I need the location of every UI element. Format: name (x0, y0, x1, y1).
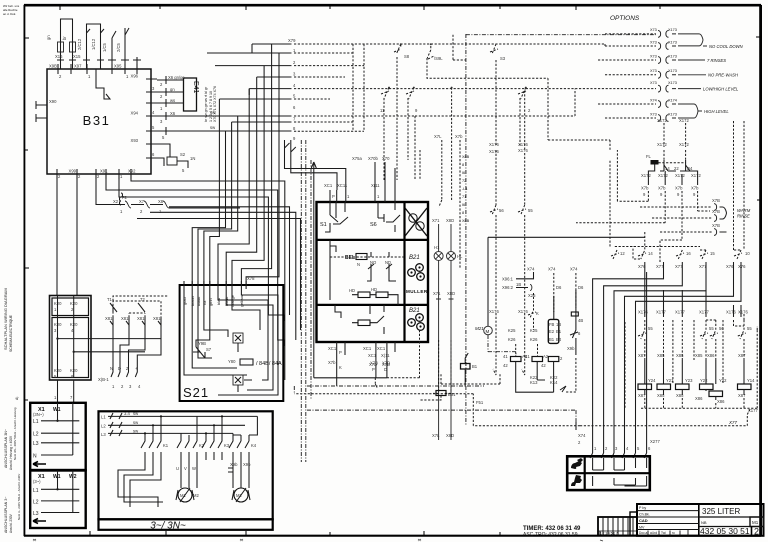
S21 switch (193, 347, 212, 358)
B31 right pin ticks (146, 79, 157, 158)
svg-text:X81: X81 (105, 316, 113, 321)
svg-text:X172: X172 (657, 142, 667, 147)
svg-text:XC1: XC1 (324, 183, 333, 188)
svg-text:325 LITER: 325 LITER (702, 507, 740, 516)
loop with fuse F1 (61, 19, 73, 69)
svg-text:SCHEMA ELECTRIQUE: SCHEMA ELECTRIQUE (9, 314, 13, 352)
svg-text:S2: S2 (180, 152, 186, 157)
svg-text:X176: X176 (518, 309, 528, 314)
wires from B31 right continuing (157, 112, 292, 135)
svg-text:X85: X85 (676, 393, 684, 398)
B1 thermal sensor (461, 364, 471, 370)
svg-text:X71: X71 (433, 291, 441, 296)
svg-text:B21: B21 (409, 255, 420, 261)
svg-text:X73: X73 (650, 41, 657, 45)
svg-text:41: 41 (503, 354, 508, 359)
svg-text:X(11: X(11 (371, 183, 380, 188)
svg-text:L1: L1 (33, 488, 39, 494)
svg-text:NO COOL DOWN: NO COOL DOWN (709, 44, 744, 49)
svg-text:A2: A2 (543, 354, 549, 359)
option group brackets (678, 34, 703, 118)
svg-text:K26: K26 (508, 337, 516, 342)
svg-text:X16: X16 (55, 54, 63, 59)
wire bundle top-center: nested harness rows (192, 38, 656, 285)
internal wiring bottom row (593, 476, 647, 486)
svg-text:-L4: -L4 (462, 187, 468, 191)
svg-text:CAD: CAD (639, 518, 648, 523)
svg-text:Anschl. 230V: Anschl. 230V (9, 513, 13, 533)
svg-text:Y22: Y22 (700, 378, 708, 383)
svg-text:X7b: X7b (328, 360, 336, 365)
svg-text:X73: X73 (650, 69, 657, 73)
svg-text:X9b: X9b (230, 462, 238, 467)
mid dashed columns X7L/X8B (420, 35, 470, 268)
svg-text:X176: X176 (738, 310, 748, 315)
svg-text:4B: 4B (578, 318, 583, 323)
X7B/X7D wires below central box (294, 162, 576, 422)
title block (637, 504, 764, 537)
svg-text:X9L: X9L (100, 169, 108, 174)
svg-text:F51: F51 (476, 400, 484, 405)
svg-text:16: 16 (686, 251, 691, 256)
svg-text:X9B: X9B (49, 64, 57, 69)
contactor group K2 (177, 433, 197, 460)
svg-text:X8D: X8D (446, 433, 454, 438)
svg-text:D6: D6 (556, 285, 562, 290)
svg-text:L3: L3 (33, 511, 39, 517)
X74 long wire (576, 422, 586, 445)
X76/X77 switch row (610, 160, 750, 272)
svg-text:55: 55 (648, 326, 653, 331)
svg-text:X74: X74 (650, 99, 657, 103)
svg-text:I6: I6 (462, 203, 465, 207)
svg-text:8: 8 (462, 163, 464, 167)
loop 2 (87, 24, 101, 69)
svg-text:E51: E51 (448, 392, 456, 397)
svg-text:11: 11 (380, 108, 385, 113)
bottom cell heater contact (335, 305, 384, 334)
B31 bottom pin ticks (57, 169, 131, 179)
svg-text:K4: K4 (251, 443, 257, 448)
svg-text:X8: X8 (158, 199, 164, 204)
svg-text:55: 55 (747, 326, 752, 331)
svg-text:FL: FL (646, 154, 652, 159)
svg-text:D: D (384, 367, 387, 372)
svg-text:NO PRE-WASH: NO PRE-WASH (708, 73, 739, 78)
svg-text:br sw gn ge ws rt bl gr: br sw gn ge ws rt bl gr (204, 86, 208, 122)
svg-text:X70: X70 (382, 156, 390, 161)
contactor group K4 (229, 416, 257, 460)
components above B31 (46, 19, 141, 69)
svg-text:K14: K14 (550, 380, 558, 385)
pressure switch cluster X172 (576, 118, 710, 240)
dashed network top-middle (353, 35, 656, 375)
svg-text:X172: X172 (691, 173, 701, 178)
svg-text:S8: S8 (404, 54, 410, 59)
svg-text:gn: gn (170, 87, 175, 92)
svg-text:X7B: X7B (370, 361, 378, 366)
wires from B31 bottom turning right (96, 140, 346, 380)
svg-text:ro: ro (672, 531, 675, 535)
svg-text:BEL: BEL (345, 255, 355, 261)
svg-text:X71: X71 (432, 218, 440, 223)
svg-text:M1: M1 (752, 520, 759, 525)
B31 top pin ticks (58, 64, 137, 74)
rotated wire-name microtext column (204, 86, 217, 122)
B31 internal step wire (96, 69, 110, 99)
svg-text:E41: E41 (192, 81, 199, 94)
svg-text:X172: X172 (679, 142, 689, 147)
svg-text:2/C12: 2/C12 (77, 38, 82, 50)
motor M2 wiring (233, 460, 249, 488)
timer reference text (523, 526, 581, 538)
svg-text:K20: K20 (54, 368, 62, 373)
svg-text:X176: X176 (726, 310, 736, 315)
svg-text:X7B: X7B (712, 223, 720, 228)
svg-text:(3~): (3~) (33, 479, 41, 484)
svg-text:E1: E1 (556, 329, 562, 334)
svg-text:X7b: X7b (658, 186, 666, 191)
svg-text:K1: K1 (163, 443, 169, 448)
svg-text:2/C5: 2/C5 (116, 42, 121, 52)
connectors X81 (98, 316, 161, 389)
svg-text:E2: E2 (549, 329, 555, 334)
svg-text:X172: X172 (679, 118, 689, 123)
svg-text:X73: X73 (650, 81, 657, 85)
svg-text:(3N~): (3N~) (33, 412, 44, 417)
svg-text:HD: HD (371, 287, 377, 292)
motor M1 wiring (118, 460, 163, 507)
dashed continuations of harness rows (294, 44, 656, 131)
svg-text:X173: X173 (668, 69, 677, 73)
svg-text:T1: T1 (107, 297, 113, 302)
svg-text:H1: H1 (434, 245, 440, 250)
svg-text:8: 8 (462, 211, 464, 215)
svg-text:V: V (184, 466, 187, 471)
svg-text:/S9L: /S9L (434, 56, 443, 61)
svg-text:gn: gn (46, 35, 51, 40)
contactor group K1 (141, 416, 161, 460)
svg-text:X74: X74 (527, 267, 535, 272)
svg-text:3.4: 3.4 (124, 411, 130, 416)
svg-text:X7b: X7b (455, 134, 463, 139)
svg-text:X172: X172 (675, 173, 685, 178)
svg-text:X74: X74 (548, 267, 556, 272)
svg-text:S6: S6 (370, 222, 377, 228)
svg-text:N: N (33, 454, 37, 460)
svg-text:41: 41 (525, 354, 530, 359)
svg-text:Netz 3N~ 400V 50Hz - Anschl.: Netz 3N~ 400V 50Hz - Anschl. Heizung (13, 407, 17, 460)
svg-text:ws: ws (170, 98, 175, 103)
svg-text:X172: X172 (641, 173, 651, 178)
svg-text:X9b: X9b (567, 346, 575, 351)
revision strip table (598, 512, 637, 536)
svg-text:X6 gn/ge: X6 gn/ge (168, 75, 185, 80)
svg-text:X277: X277 (650, 439, 660, 444)
svg-text:MV: MV (639, 526, 645, 530)
svg-text:P: P (372, 367, 375, 372)
svg-text:X78: X78 (247, 276, 255, 281)
svg-text:X176: X176 (489, 142, 499, 147)
svg-text:X7L: X7L (432, 433, 440, 438)
svg-text:Y24: Y24 (648, 378, 656, 383)
svg-text:X7D: X7D (382, 361, 390, 366)
svg-text:L2: L2 (33, 500, 39, 506)
dashed interference block above X81 (107, 296, 168, 325)
margin microtext (3, 4, 21, 533)
svg-text:15: 15 (710, 251, 715, 256)
svg-text:Y14: Y14 (747, 378, 755, 383)
svg-text:MULLER: MULLER (406, 289, 428, 294)
svg-text:ASC-TRO: 432 06 31 59: ASC-TRO: 432 06 31 59 (523, 532, 578, 538)
controller B31 (36, 64, 157, 180)
svg-text:10: 10 (745, 251, 750, 256)
option labels (703, 44, 744, 114)
svg-text:X92: X92 (128, 169, 136, 174)
mains terminal X1 (3~) (30, 471, 85, 529)
svg-text:X85: X85 (695, 353, 703, 358)
svg-text:X173: X173 (668, 28, 677, 32)
svg-text:D6: D6 (578, 285, 584, 290)
svg-text:X85: X85 (657, 353, 665, 358)
svg-text:X(B-1: X(B-1 (98, 377, 109, 382)
svg-text:X76: X76 (726, 264, 734, 269)
solenoid valve section (294, 272, 758, 426)
heater box E2/E1 (548, 319, 559, 343)
svg-text:X75a: X75a (352, 156, 362, 161)
svg-text:X70b: X70b (368, 156, 378, 161)
svg-text:Twi: Twi (661, 531, 666, 535)
dash-dot bus lines (301, 34, 466, 462)
svg-text:Ch.Bk.: Ch.Bk. (639, 513, 650, 517)
svg-text:X96: X96 (131, 74, 139, 79)
svg-text:K20: K20 (54, 301, 62, 306)
lamp lines H1 M1 (432, 218, 463, 440)
svg-text:L1: L1 (33, 419, 39, 425)
svg-text:K25: K25 (530, 328, 538, 333)
svg-text:L3: L3 (33, 441, 39, 447)
svg-text:X96:1: X96:1 (502, 277, 514, 282)
svg-text:S3: S3 (500, 56, 506, 61)
svg-text:X81: X81 (153, 316, 161, 321)
svg-text:2: 2 (754, 527, 759, 537)
svg-text:55: 55 (528, 208, 533, 213)
svg-text:X74: X74 (570, 267, 578, 272)
svg-text:X8B: X8B (462, 155, 470, 159)
contactor group K3 (202, 416, 222, 460)
connectors X2 X7 X8 row (113, 193, 169, 214)
svg-text:Netz 3~ 230V 50Hz - Anschl.: Netz 3~ 230V 50Hz - Anschl. 230V (17, 474, 21, 520)
middle cell BEL relay (330, 256, 404, 258)
svg-text:Y80: Y80 (228, 359, 236, 364)
svg-text:7 RINSES: 7 RINSES (707, 58, 726, 63)
warm rinse option (640, 121, 751, 262)
svg-text:X99: X99 (69, 169, 77, 174)
svg-text:X86: X86 (695, 396, 703, 401)
svg-text:X81: X81 (121, 316, 129, 321)
relay block K20 (50, 296, 162, 381)
svg-text:ND: ND (385, 260, 391, 265)
svg-text:X176: X176 (489, 149, 499, 154)
svg-text:M: M (486, 329, 490, 334)
svg-text:X7b: X7b (675, 186, 683, 191)
svg-text:14: 14 (648, 251, 653, 256)
svg-text:X173: X173 (668, 81, 677, 85)
svg-text:W: W (192, 466, 196, 471)
staircase wires to program unit (590, 272, 741, 458)
svg-text:X77: X77 (728, 420, 738, 425)
svg-text:X173: X173 (668, 113, 677, 117)
svg-text:al-bd: al-bd (650, 531, 657, 535)
svg-text:X87: X87 (738, 353, 746, 358)
svg-text:Z: Z (126, 366, 129, 371)
option connector pairs X73/X173 (598, 28, 707, 121)
svg-text:X8B: X8B (462, 219, 470, 223)
svg-text:X172: X172 (657, 118, 667, 123)
svg-text:W1: W1 (53, 407, 61, 413)
svg-text:M21: M21 (475, 326, 484, 331)
svg-text:X94: X94 (131, 111, 139, 116)
svg-text:braun: braun (191, 296, 195, 306)
option connector pairs X73/X173 (294, 28, 763, 538)
svg-text:B1: B1 (549, 337, 555, 342)
svg-text:XC1: XC1 (363, 346, 372, 351)
svg-text:XC1: XC1 (377, 346, 386, 351)
crossed-out lamps (409, 214, 417, 222)
svg-text:WARM: WARM (737, 208, 751, 213)
svg-text:12: 12 (620, 251, 625, 256)
svg-text:X176: X176 (518, 148, 528, 153)
svg-text:/ 84B/ 84A: / 84B/ 84A (256, 361, 282, 367)
svg-text:L3: L3 (101, 432, 106, 437)
svg-text:X25: X25 (528, 293, 536, 298)
svg-text:1B: 1B (516, 282, 521, 287)
svg-text:XC1: XC1 (328, 346, 337, 351)
svg-text:LOW/HIGH LEVEL: LOW/HIGH LEVEL (703, 87, 739, 92)
svg-text:X93: X93 (131, 138, 139, 143)
wires B31 bottom to K20 (57, 174, 77, 296)
svg-text:K: K (339, 365, 342, 370)
timer unit S21 (180, 276, 284, 401)
svg-text:RINSE: RINSE (737, 214, 750, 219)
svg-text:S7: S7 (206, 347, 212, 352)
S21 Y80 coil (240, 359, 253, 365)
svg-text:X174: X174 (668, 99, 677, 103)
svg-text:X76: X76 (738, 264, 746, 269)
svg-text:ANSCHLUSSPLAN 3N~: ANSCHLUSSPLAN 3N~ (4, 429, 8, 468)
svg-text:B31: B31 (83, 113, 111, 128)
svg-text:56: 56 (499, 208, 504, 213)
svg-text:L1: L1 (101, 415, 106, 420)
svg-text:S1: S1 (320, 222, 327, 228)
svg-text:X176: X176 (518, 142, 528, 147)
wires B31 to E41 (157, 80, 184, 103)
svg-text:42: 42 (541, 363, 546, 368)
svg-text:OPTIONS: OPTIONS (610, 15, 640, 22)
svg-text:1N: 1N (190, 156, 195, 161)
svg-text:L2: L2 (101, 424, 106, 429)
svg-text:22: 22 (674, 166, 679, 171)
svg-text:72: 72 (462, 179, 466, 183)
svg-text:X173: X173 (668, 41, 677, 45)
svg-text:X7B: X7B (712, 209, 720, 214)
program unit connector block (hands) (567, 456, 650, 490)
motor box (99, 411, 273, 532)
svg-text:K: K (536, 311, 539, 316)
svg-text:1B: 1B (556, 322, 561, 327)
svg-text:X177: X177 (675, 310, 685, 315)
svg-text:X7L: X7L (434, 134, 442, 139)
svg-text:X176: X176 (638, 310, 648, 315)
svg-text:HIGH LEVEL: HIGH LEVEL (704, 109, 729, 114)
svg-text:432 05 30 51: 432 05 30 51 (700, 526, 750, 536)
svg-text:X73: X73 (650, 28, 657, 32)
svg-text:W1: W1 (53, 474, 61, 480)
svg-text:U: U (176, 466, 179, 471)
svg-text:X86: X86 (707, 353, 715, 358)
svg-text:K13: K13 (530, 380, 538, 385)
svg-text:B4: B4 (556, 337, 562, 342)
svg-text:X97: X97 (74, 64, 82, 69)
svg-text:X7b: X7b (691, 186, 699, 191)
svg-text:Y23: Y23 (685, 378, 693, 383)
mains terminal X1 (3N~) (30, 380, 85, 470)
svg-text:42: 42 (503, 363, 508, 368)
svg-text:P by: P by (639, 506, 646, 510)
svg-text:X96:2: X96:2 (502, 285, 514, 290)
hand icons (571, 461, 582, 469)
svg-text:X73: X73 (650, 55, 657, 59)
svg-text:an d. Dok.: an d. Dok. (3, 12, 16, 16)
drain pump M21 (475, 237, 645, 356)
S21 lamp top (233, 333, 243, 343)
S21 internal wiring (184, 289, 247, 375)
svg-text:HD: HD (349, 288, 355, 293)
svg-text:X81: X81 (137, 316, 145, 321)
svg-text:X2: X2 (113, 199, 119, 204)
svg-text:X87: X87 (638, 353, 646, 358)
svg-text:3~/ 3N~: 3~/ 3N~ (150, 521, 186, 532)
svg-text:K20: K20 (54, 322, 62, 327)
svg-text:X15: X15 (73, 54, 81, 59)
svg-text:X8D: X8D (447, 291, 455, 296)
svg-text:X173: X173 (668, 55, 677, 59)
svg-text:X7B: X7B (712, 198, 720, 203)
interference suppressor E41 (157, 75, 292, 173)
central box bottom pins (328, 342, 395, 386)
svg-text:55: 55 (709, 326, 714, 331)
pressure switch unit S1/B21 (317, 156, 429, 342)
svg-text:I6: I6 (462, 171, 465, 175)
relay coils (511, 357, 522, 362)
svg-text:X77: X77 (656, 264, 664, 269)
svg-text:1 2 3 4 5 6 7: 1 2 3 4 5 6 7 (600, 532, 618, 536)
svg-text:N: N (357, 262, 360, 267)
loop 3 (112, 28, 129, 69)
svg-text:X70 X71 X72 X74 X76: X70 X71 X72 X74 X76 (213, 86, 217, 122)
svg-text:X176: X176 (489, 309, 499, 314)
svg-text:Y9B: Y9B (198, 341, 206, 346)
X93 wire to small connector (157, 144, 170, 166)
svg-text:X172: X172 (658, 173, 668, 178)
svg-text:X177: X177 (699, 310, 709, 315)
S21 lamp bottom (233, 375, 243, 385)
svg-text:X6: X6 (170, 111, 176, 116)
svg-text:N: N (110, 366, 113, 371)
svg-text:ANSCHLUSSPLAN 3~: ANSCHLUSSPLAN 3~ (4, 497, 8, 533)
svg-text:X85: X85 (676, 353, 684, 358)
svg-text:L2: L2 (33, 432, 39, 438)
